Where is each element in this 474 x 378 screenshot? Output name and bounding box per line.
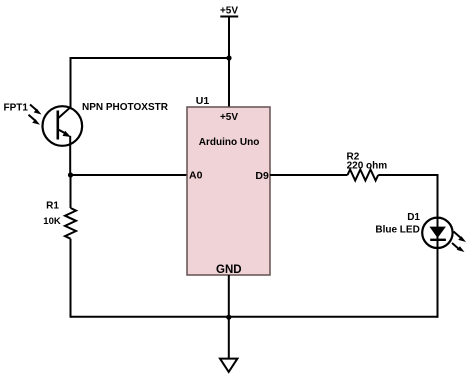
wire bottom horizontal (71, 316, 439, 318)
wire R2 to corner (378, 174, 438, 176)
svg-text:Arduino Uno: Arduino Uno (199, 137, 260, 148)
wire GND drop from box (228, 275, 230, 359)
svg-text:R1: R1 (46, 201, 59, 212)
svg-text:Blue LED: Blue LED (375, 224, 419, 235)
power +5V symbol (220, 6, 238, 17)
resistor R1 (65, 208, 76, 239)
node junction top (226, 55, 231, 60)
wire emitter drop (69, 136, 71, 175)
wire collector drop (70, 57, 72, 108)
wire R1 top lead (70, 175, 72, 208)
wire R1 bottom lead (70, 239, 72, 318)
svg-text:D9: D9 (255, 170, 269, 182)
node junction ground (226, 315, 231, 320)
svg-text:10K: 10K (43, 216, 61, 227)
node junction A0 (68, 172, 73, 177)
svg-text:NPN PHOTOXSTR: NPN PHOTOXSTR (82, 102, 169, 113)
op-amp U1 Arduino Uno box (187, 107, 270, 275)
ground (220, 359, 237, 372)
transistor FPT1 phototransistor (29, 105, 83, 146)
wire A0 horizontal (71, 174, 188, 176)
wire LED bottom lead (437, 249, 439, 318)
svg-text:+5V: +5V (220, 6, 238, 17)
resistor R2 (348, 170, 379, 181)
svg-text:GND: GND (216, 264, 242, 276)
wire +5V rail vertical (228, 17, 230, 108)
svg-text:A0: A0 (189, 170, 203, 182)
svg-text:U1: U1 (196, 95, 210, 107)
svg-text:FPT1: FPT1 (4, 103, 29, 114)
wire LED top lead (437, 174, 439, 217)
svg-text:220 ohm: 220 ohm (347, 160, 388, 171)
wire D9 horizontal (270, 174, 348, 176)
svg-text:+5V: +5V (220, 112, 238, 123)
diode D1 blue LED (422, 217, 466, 252)
wire top horizontal to phototransistor (71, 57, 230, 59)
svg-text:D1: D1 (407, 212, 420, 223)
